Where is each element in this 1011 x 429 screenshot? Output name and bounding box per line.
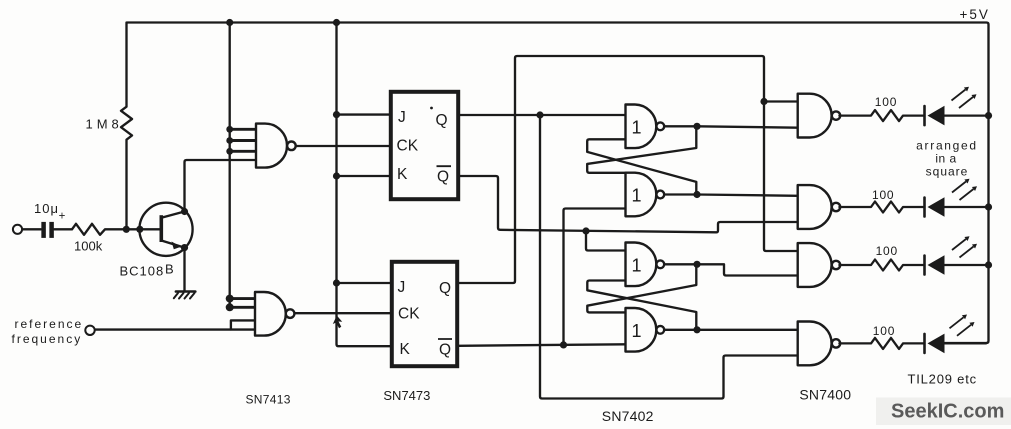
svg-text:+: + [59,210,66,222]
svg-text:Q: Q [437,169,449,186]
svg-text:TIL209 etc: TIL209 etc [908,371,977,386]
svg-text:CK: CK [397,138,419,155]
svg-text:K: K [397,166,408,183]
svg-text:SN7402: SN7402 [602,408,654,424]
svg-text:SN7413: SN7413 [246,392,291,406]
svg-text:+5V: +5V [960,7,990,22]
svg-text:1M8: 1M8 [86,117,123,132]
svg-text:100: 100 [872,188,894,202]
svg-text:100: 100 [876,244,898,258]
svg-text:frequency: frequency [12,332,83,346]
svg-text:100: 100 [873,324,895,338]
svg-text:SeekIC.com: SeekIC.com [891,401,1004,423]
svg-text:1: 1 [632,186,642,206]
svg-text:B: B [165,262,174,277]
svg-text:SN7400: SN7400 [799,386,851,402]
svg-text:arranged: arranged [916,139,978,153]
svg-text:SN7473: SN7473 [383,388,430,403]
svg-text:in a: in a [935,152,956,166]
svg-text:K: K [400,341,411,358]
svg-text:Q: Q [436,112,448,129]
svg-text:Q: Q [439,342,451,359]
svg-text:J: J [398,109,406,126]
svg-text:1: 1 [632,118,642,138]
svg-text:BC108: BC108 [120,264,165,279]
svg-text:CK: CK [398,306,420,323]
svg-text:1: 1 [632,256,642,276]
svg-text:Q: Q [439,280,451,297]
svg-text:J: J [398,279,406,296]
svg-text:10μ: 10μ [34,201,59,216]
svg-text:reference: reference [15,317,84,331]
svg-text:1: 1 [632,321,642,341]
svg-text:100: 100 [875,95,897,109]
svg-text:square: square [926,165,969,179]
svg-text:100k: 100k [74,238,103,253]
